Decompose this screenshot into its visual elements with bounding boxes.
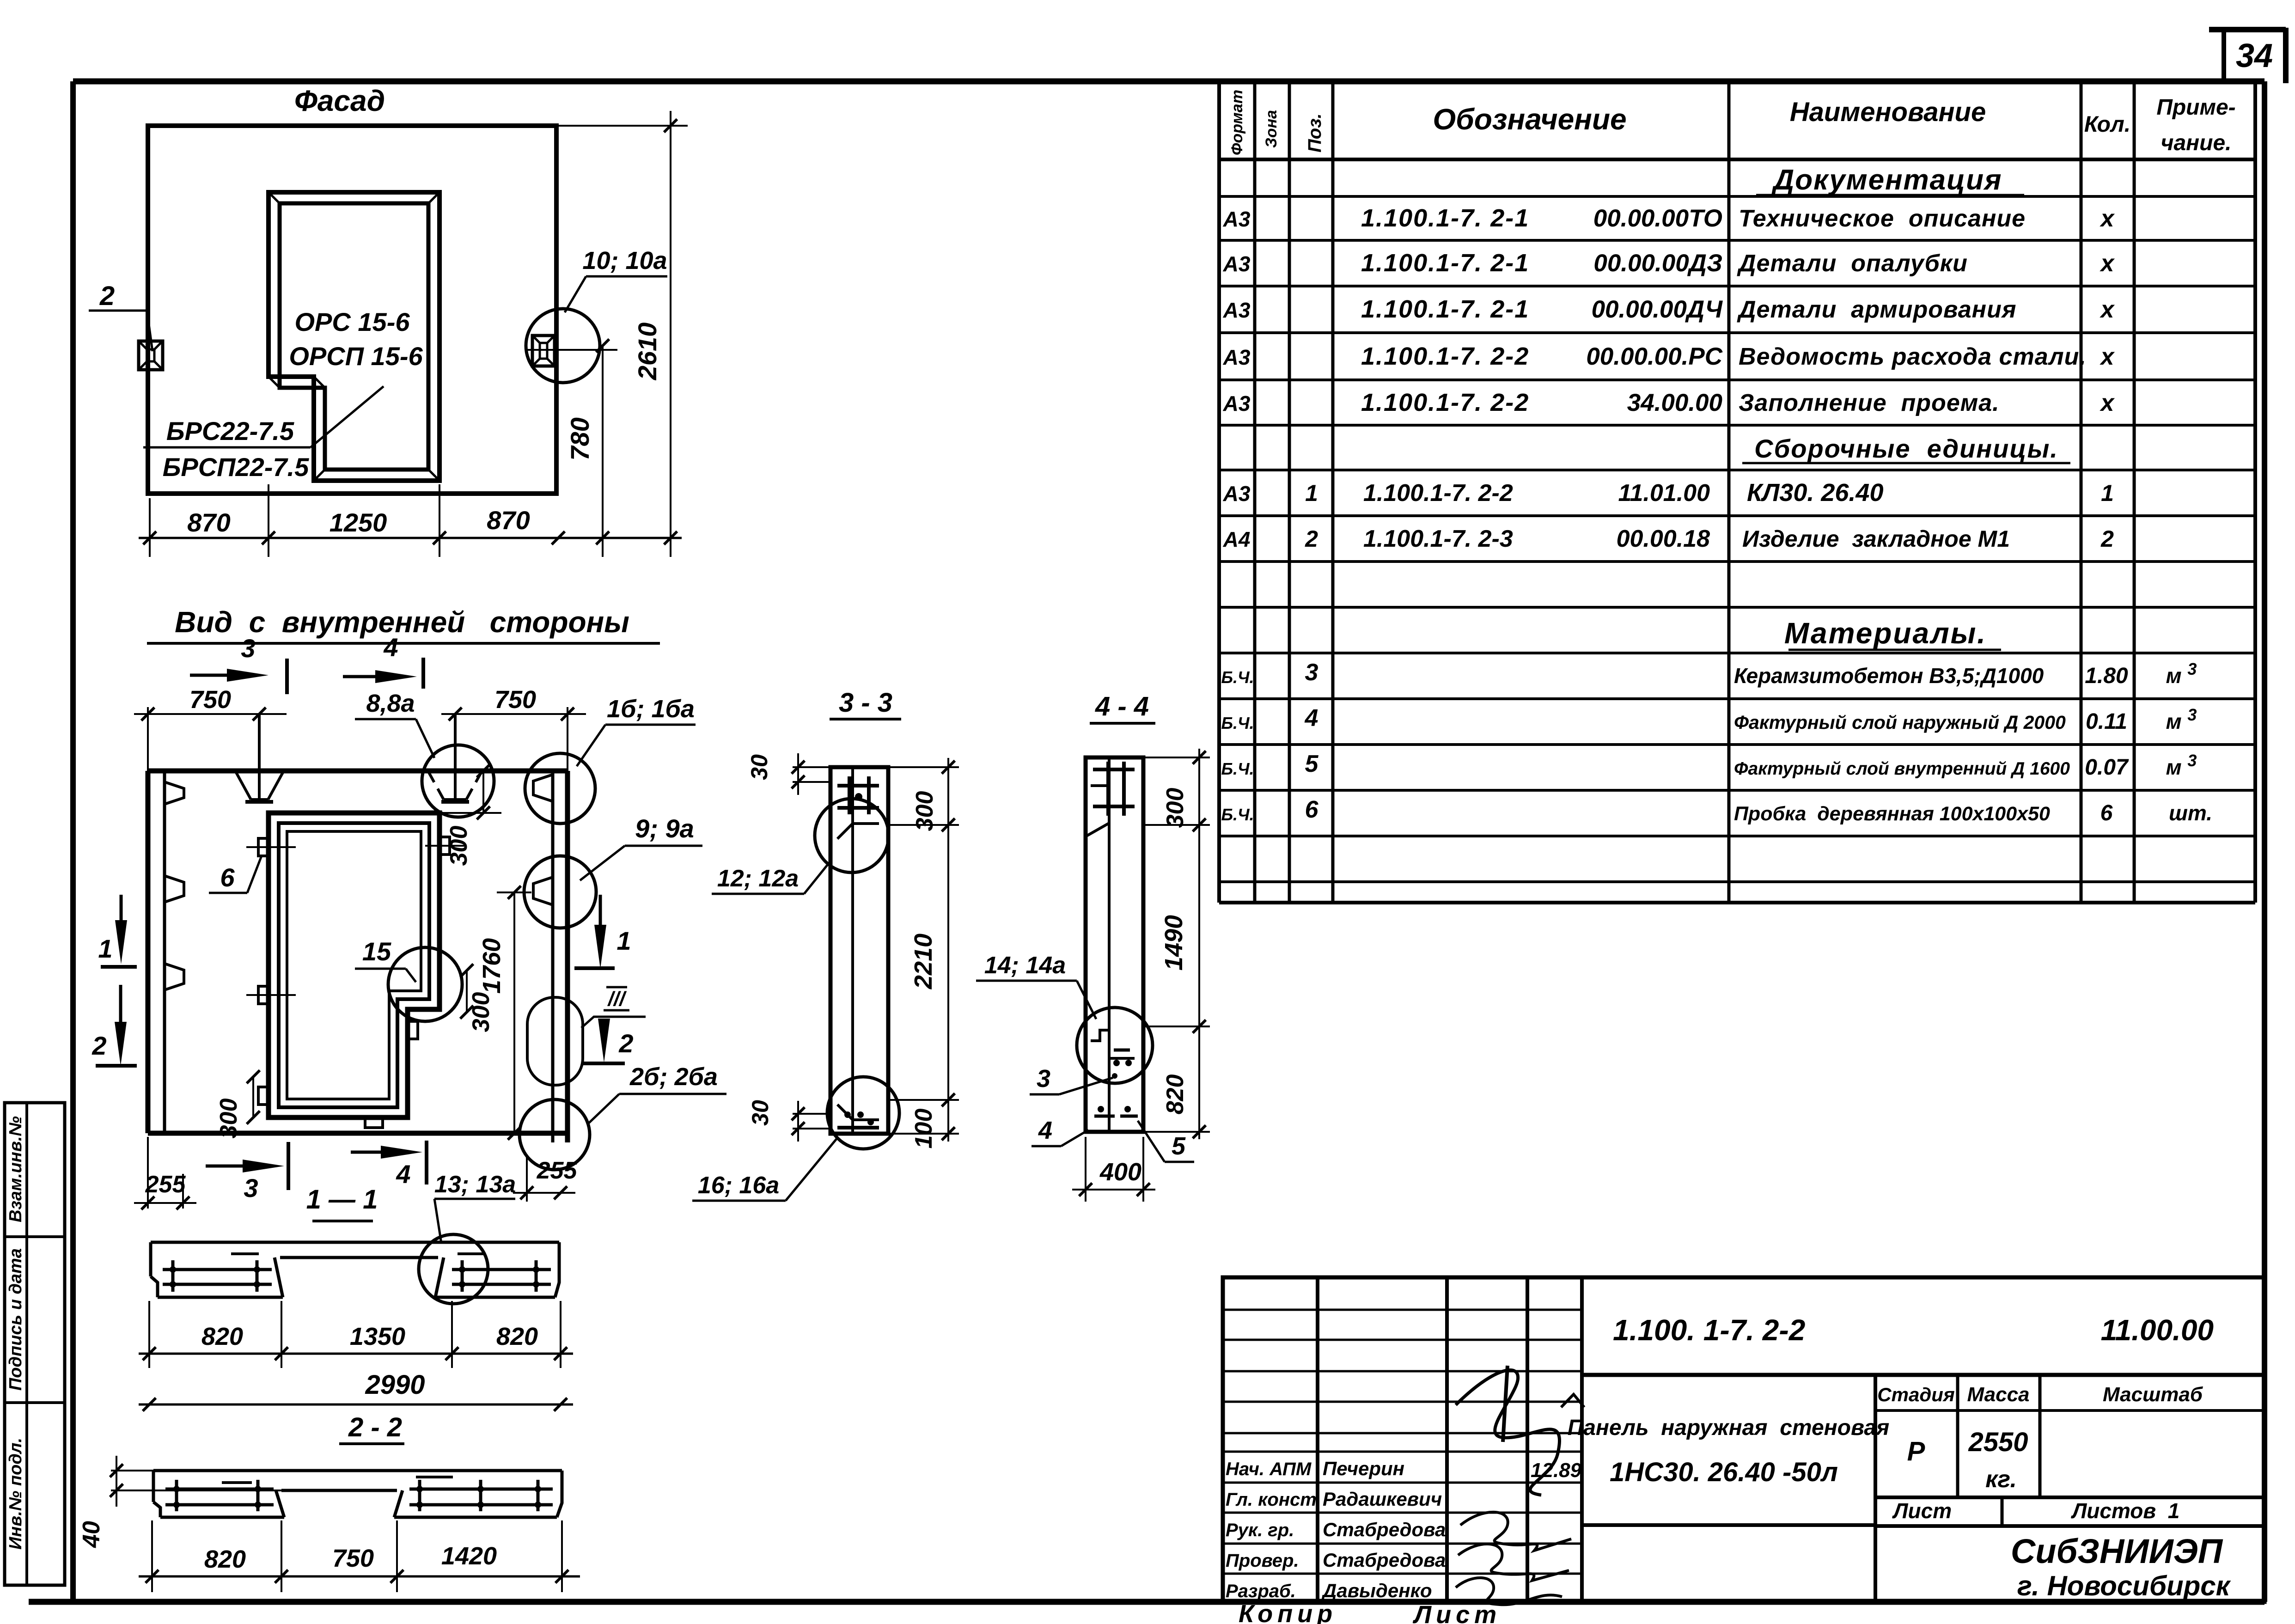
svg-text:3: 3 <box>244 1173 258 1203</box>
clamp inside 9 circle <box>533 877 553 905</box>
svg-text:1: 1 <box>616 926 631 955</box>
svg-text:Копир: Копир <box>1239 1600 1337 1624</box>
detail circle 9;9а <box>524 856 596 928</box>
svg-text:2: 2 <box>1305 526 1318 552</box>
svg-text:А3: А3 <box>1223 391 1251 415</box>
svg-text:1350: 1350 <box>350 1323 405 1350</box>
label 13;13а with leader <box>434 1171 516 1243</box>
svg-text:ОРСП 15-6: ОРСП 15-6 <box>289 342 423 371</box>
svg-text:5: 5 <box>1172 1132 1186 1160</box>
svg-text:11.01.00: 11.01.00 <box>1618 480 1710 507</box>
svg-text:30: 30 <box>747 1100 773 1126</box>
svg-text:1: 1 <box>1305 480 1318 506</box>
svg-text:1: 1 <box>2101 480 2114 506</box>
svg-text:Приме-: Приме- <box>2156 95 2235 120</box>
svg-text:780: 780 <box>565 417 594 460</box>
svg-text:Детали опалубки: Детали опалубки <box>1737 250 1968 277</box>
detail circle 10;10а <box>526 309 600 383</box>
svg-text:3: 3 <box>1305 659 1318 686</box>
svg-text:Материалы.: Материалы. <box>1784 617 1987 650</box>
label 14;14а with leader <box>976 952 1096 1019</box>
svg-text:2: 2 <box>2100 526 2114 552</box>
svg-text:Б.Ч.: Б.Ч. <box>1221 668 1254 687</box>
title block: organization <box>2011 1532 2231 1601</box>
svg-text:Заполнение проема.: Заполнение проема. <box>1739 390 2000 416</box>
label 1б;1ба with leader <box>577 695 696 766</box>
table row: Керамзитобетон В3,5;Д1000 <box>1221 659 2197 688</box>
svg-text:300: 300 <box>215 1099 242 1139</box>
section 3-3 bottom rebar (detail 16;16а) <box>837 1105 879 1128</box>
svg-text:1.100. 1-7. 2-2: 1.100. 1-7. 2-2 <box>1613 1313 1805 1347</box>
table section heading Документация <box>1756 164 2024 196</box>
svg-text:11.00.00: 11.00.00 <box>2101 1313 2214 1347</box>
svg-text:Фактурный слой внутренний Д 16: Фактурный слой внутренний Д 1600 <box>1734 759 2070 779</box>
svg-text:Подпись и дата: Подпись и дата <box>6 1248 25 1391</box>
svg-text:820: 820 <box>496 1323 538 1350</box>
svg-text:Пробка деревянная 100х100х50: Пробка деревянная 100х100х50 <box>1734 803 2050 825</box>
svg-text:4 - 4: 4 - 4 <box>1095 691 1149 721</box>
table section heading Сборочные единицы <box>1742 434 2070 463</box>
label 2б;2ба with leader <box>588 1063 726 1124</box>
detail circle 16;16а <box>827 1077 899 1149</box>
svg-text:х: х <box>2100 250 2115 277</box>
svg-text:750: 750 <box>494 686 536 714</box>
svg-text:870: 870 <box>487 506 530 535</box>
table row КЛ30.26.40 <box>1223 479 2114 507</box>
svg-text:СибЗНИИЭП: СибЗНИИЭП <box>2011 1532 2223 1570</box>
svg-text:Рук. гр.: Рук. гр. <box>1226 1520 1294 1540</box>
svg-text:34: 34 <box>2236 37 2273 74</box>
label 10;10а with leader <box>565 247 667 312</box>
section 4-4 profile <box>1086 757 1143 1132</box>
svg-text:2б; 2ба: 2б; 2ба <box>629 1063 718 1091</box>
window frame tab bottom <box>365 1117 383 1128</box>
section 4-4 dimension 400 <box>1072 1137 1155 1202</box>
svg-text:Ведомость расхода стали.: Ведомость расхода стали. <box>1739 343 2087 370</box>
label Ш (welded joint) <box>604 987 629 1010</box>
svg-text:2990: 2990 <box>365 1370 425 1400</box>
detail circle 14;14а <box>1077 1007 1153 1083</box>
svg-text:А4: А4 <box>1223 527 1251 551</box>
svg-text:Лист: Лист <box>1412 1601 1501 1624</box>
svg-text:х: х <box>2100 296 2115 323</box>
svg-text:2: 2 <box>92 1031 106 1060</box>
svg-text:///: /// <box>607 988 627 1010</box>
svg-text:Масса: Масса <box>1967 1383 2029 1406</box>
label 4 with leader <box>1032 1117 1088 1146</box>
svg-text:00.00.00.РС: 00.00.00.РС <box>1586 343 1722 370</box>
svg-text:Документация: Документация <box>1771 164 2002 196</box>
svg-text:Печерин: Печерин <box>1323 1458 1404 1479</box>
svg-text:Изделие закладное М1: Изделие закладное М1 <box>1742 526 2010 552</box>
section 3-3 profile <box>830 767 888 1134</box>
section mark 3 (top) <box>190 634 287 694</box>
svg-text:4: 4 <box>1305 705 1318 732</box>
svg-text:15: 15 <box>362 937 391 966</box>
svg-text:300: 300 <box>468 992 494 1032</box>
leader from stadium <box>581 1017 646 1028</box>
svg-text:750: 750 <box>189 686 231 714</box>
label 12;12а with leader <box>712 861 831 894</box>
section 4-4 dimension chain 300/1490/820 <box>1143 749 1210 1139</box>
svg-text:Давыденко: Давыденко <box>1321 1580 1432 1601</box>
specification table grid <box>1219 81 2255 903</box>
svg-text:Детали армирования: Детали армирования <box>1737 296 2016 323</box>
label 15 with leader <box>355 937 416 982</box>
svg-text:Кол.: Кол. <box>2084 112 2130 137</box>
section mark 1 (right) <box>574 895 631 969</box>
svg-text:Керамзитобетон В3,5;Д1000: Керамзитобетон В3,5;Д1000 <box>1734 664 2044 688</box>
svg-text:12; 12а: 12; 12а <box>717 865 799 892</box>
svg-text:5: 5 <box>1305 751 1319 777</box>
svg-text:13; 13а: 13; 13а <box>434 1171 516 1198</box>
svg-text:1: 1 <box>98 934 112 963</box>
interior dimension 750 left <box>134 686 287 771</box>
svg-text:820: 820 <box>201 1323 243 1350</box>
section 2-2 rebar left block <box>165 1480 274 1511</box>
svg-text:4: 4 <box>1038 1117 1052 1144</box>
table row: Пробка &#160;деревянная 100х100х50 <box>1221 796 2212 825</box>
svg-text:кг.: кг. <box>1985 1466 2017 1493</box>
svg-text:Гл. конст: Гл. конст <box>1226 1490 1317 1510</box>
detail circle 12;12а <box>815 799 889 873</box>
section 4-4 title <box>1090 691 1155 723</box>
table row: Фактурный слой наружный Д 2000 <box>1221 705 2197 734</box>
facade dimension 2610 (vertical) <box>556 111 688 557</box>
svg-text:1б; 1ба: 1б; 1ба <box>607 695 695 723</box>
svg-text:КЛ30. 26.40: КЛ30. 26.40 <box>1747 479 1884 507</box>
left edge clamp mark a <box>165 782 184 804</box>
svg-text:А3: А3 <box>1223 482 1251 506</box>
svg-text:1420: 1420 <box>441 1542 497 1570</box>
label 9;9а with leader <box>580 814 702 880</box>
interior window inner contour <box>287 831 421 1099</box>
svg-text:00.00.00ДЗ: 00.00.00ДЗ <box>1593 250 1722 277</box>
interior dimension 255 left <box>134 1137 196 1209</box>
svg-text:2: 2 <box>99 281 115 311</box>
svg-text:255: 255 <box>537 1157 578 1184</box>
svg-text:6: 6 <box>2100 801 2113 825</box>
stadium detail zone Ш <box>527 997 583 1085</box>
svg-text:шт.: шт. <box>2169 801 2212 825</box>
svg-text:Формат: Формат <box>1228 90 1246 155</box>
title block signature row Рук. гр. <box>1226 1519 1446 1540</box>
svg-text:3: 3 <box>241 634 255 663</box>
signatures squiggles <box>1456 1366 1584 1605</box>
svg-text:Листов 1: Листов 1 <box>2071 1499 2180 1523</box>
title block signature row Нач. АПМ <box>1226 1458 1404 1479</box>
svg-text:40: 40 <box>78 1521 105 1548</box>
facade embedded item 10 (right) <box>532 336 555 366</box>
svg-text:1.100.1-7. 2-2: 1.100.1-7. 2-2 <box>1361 342 1529 370</box>
svg-text:300: 300 <box>1162 788 1189 828</box>
svg-text:Взам.инв.№: Взам.инв.№ <box>6 1116 25 1222</box>
title block signature row Гл. конст <box>1226 1488 1442 1510</box>
left edge clamp mark b <box>165 876 184 902</box>
svg-text:1.100.1-7. 2-1: 1.100.1-7. 2-1 <box>1361 249 1529 277</box>
svg-text:Б.Ч.: Б.Ч. <box>1221 805 1254 824</box>
svg-text:Обозначение: Обозначение <box>1433 103 1626 136</box>
section 2-2 title <box>339 1412 404 1444</box>
svg-text:1.100.1-7. 2-1: 1.100.1-7. 2-1 <box>1361 295 1529 323</box>
table row: Ведомость расхода стали. <box>1223 342 2115 370</box>
interior window middle contour <box>279 823 429 1107</box>
svg-text:А3: А3 <box>1223 345 1251 369</box>
title block grid <box>1223 1277 2264 1602</box>
section 3-3 dimension chain 300/2210/100 <box>888 758 959 1148</box>
section 3-3 top rebar (detail 12;12а) <box>837 776 879 839</box>
detail circle 13;13а <box>419 1234 488 1304</box>
section mark 4 (top) <box>343 633 423 689</box>
svg-text:100: 100 <box>910 1109 937 1149</box>
svg-text:Наименование: Наименование <box>1790 97 1986 127</box>
table section heading Материалы <box>1784 617 2001 650</box>
interior dimension 300 bottom left <box>215 1070 260 1139</box>
table row: Фактурный слой внутренний Д 1600 <box>1221 751 2197 780</box>
left edge clamp mark c <box>165 964 184 990</box>
svg-text:Фасад: Фасад <box>294 84 385 117</box>
window frame tab step edge <box>408 1021 418 1039</box>
label 6 with leader <box>209 856 262 893</box>
svg-text:Инв.№ подл.: Инв.№ подл. <box>6 1438 25 1550</box>
svg-text:2: 2 <box>618 1029 633 1058</box>
svg-text:Р: Р <box>1907 1436 1925 1466</box>
svg-text:30: 30 <box>746 754 772 780</box>
detail circle 1б;1ба <box>525 753 595 824</box>
svg-text:чание.: чание. <box>2161 131 2231 155</box>
facade window corner chamfer ticks <box>269 192 439 481</box>
svg-text:А3: А3 <box>1223 298 1251 322</box>
section 2-2 dimensions 820/750/1420 <box>139 1520 580 1592</box>
interior dimension 750 right <box>441 686 586 771</box>
svg-text:Техническое описание: Техническое описание <box>1739 205 2026 232</box>
title block signature row Провер. <box>1226 1549 1446 1571</box>
table row: Детали &#160;опалубки <box>1223 249 2115 277</box>
svg-text:Нач. АПМ: Нач. АПМ <box>1226 1459 1312 1479</box>
svg-text:БРС22-7.5: БРС22-7.5 <box>166 416 294 446</box>
section mark 2 (left) <box>92 985 137 1066</box>
svg-text:Б.Ч.: Б.Ч. <box>1221 759 1254 778</box>
section mark 2 (right) <box>581 1019 634 1063</box>
facade window opening inner contour <box>280 203 428 470</box>
svg-text:870: 870 <box>187 508 230 537</box>
svg-text:34.00.00: 34.00.00 <box>1627 389 1722 416</box>
svg-text:1НС30. 26.40 -50л: 1НС30. 26.40 -50л <box>1610 1457 1838 1487</box>
svg-text:4: 4 <box>396 1160 410 1189</box>
label 2 with leader <box>89 281 153 351</box>
interior view title <box>147 605 660 643</box>
svg-text:Радашкевич: Радашкевич <box>1323 1488 1442 1510</box>
svg-text:г. Новосибирск: г. Новосибирск <box>2017 1570 2231 1601</box>
label 3 with leader <box>1030 1065 1117 1094</box>
facade window opening (L-shaped, outer contour) <box>269 192 439 481</box>
facade panel outline <box>148 126 556 494</box>
table row: Заполнение &#160;проема. <box>1223 389 2115 416</box>
svg-text:Провер.: Провер. <box>1226 1551 1299 1571</box>
interior window opening (L-shaped) outer contour <box>269 813 439 1117</box>
svg-text:Зона: Зона <box>1263 110 1280 148</box>
svg-text:1.80: 1.80 <box>2085 664 2128 688</box>
section mark 3 (bottom) <box>206 1142 288 1203</box>
svg-text:8,8а: 8,8а <box>366 690 415 717</box>
svg-text:2550: 2550 <box>1968 1427 2028 1457</box>
interior dimension 1760 <box>478 886 531 1140</box>
interior dimension 300 middle <box>460 964 494 1032</box>
table row: Детали &#160;армирования <box>1223 295 2115 323</box>
top edge notch 1 with lifting anchor <box>235 714 284 803</box>
title block: panel name <box>1568 1416 1890 1487</box>
svg-text:Разраб.: Разраб. <box>1226 1581 1296 1601</box>
svg-text:Сборочные единицы.: Сборочные единицы. <box>1754 434 2058 463</box>
svg-text:6: 6 <box>1305 796 1319 823</box>
svg-text:10; 10а: 10; 10а <box>582 247 667 275</box>
svg-text:750: 750 <box>332 1545 374 1572</box>
section 2-2 profile <box>153 1471 562 1517</box>
svg-text:Стабредова: Стабредова <box>1323 1549 1446 1571</box>
detail circle 8,8а <box>422 745 494 817</box>
centerline through item 10 <box>527 349 617 351</box>
interior dimension 300 top right <box>439 764 501 866</box>
svg-text:1490: 1490 <box>1160 915 1188 971</box>
svg-text:16; 16а: 16; 16а <box>698 1172 779 1199</box>
window frame tab left bottom <box>258 1087 269 1105</box>
svg-text:14; 14а: 14; 14а <box>984 952 1066 979</box>
interior panel outline <box>148 771 568 1142</box>
svg-text:255: 255 <box>145 1171 186 1198</box>
svg-text:2610: 2610 <box>633 323 662 381</box>
svg-text:3 - 3: 3 - 3 <box>839 688 892 718</box>
label 5 with leader <box>1138 1121 1194 1162</box>
section 1-1 rebar left block <box>163 1254 272 1292</box>
detail circle 2б;2ба <box>519 1099 590 1170</box>
svg-text:2210: 2210 <box>909 934 937 989</box>
svg-text:х: х <box>2100 390 2115 416</box>
svg-text:1 — 1: 1 — 1 <box>306 1184 378 1215</box>
svg-text:Стабредова: Стабредова <box>1323 1519 1446 1540</box>
clamp inside 1б circle <box>533 775 553 801</box>
svg-text:А3: А3 <box>1223 252 1251 276</box>
svg-text:х: х <box>2100 205 2115 232</box>
svg-text:Стадия: Стадия <box>1877 1384 1954 1405</box>
interior dimension 255 right <box>513 1155 577 1202</box>
svg-text:Фактурный слой наружный Д 2000: Фактурный слой наружный Д 2000 <box>1734 712 2066 733</box>
svg-text:00.00.18: 00.00.18 <box>1617 525 1710 552</box>
svg-text:0.11: 0.11 <box>2086 709 2127 734</box>
svg-text:400: 400 <box>1099 1158 1141 1186</box>
svg-text:Лист: Лист <box>1892 1499 1952 1523</box>
title block: стадия масса масштаб <box>1877 1383 2203 1493</box>
svg-text:3: 3 <box>1037 1065 1050 1093</box>
section 1-1 title <box>306 1184 378 1221</box>
specification table headers <box>1228 90 2236 155</box>
window frame tab right top <box>425 837 467 855</box>
section 3-3 dimension 30 bottom <box>747 1100 832 1142</box>
svg-text:00.00.00ТО: 00.00.00ТО <box>1593 205 1722 232</box>
detail circle 15 <box>388 947 462 1021</box>
table row Изделие закладное М1 <box>1223 525 2114 552</box>
section 1-1 dimensions 820/1350/820 <box>139 1301 573 1368</box>
svg-text:ОРС 15-6: ОРС 15-6 <box>295 307 410 336</box>
svg-text:х: х <box>2100 343 2115 370</box>
window frame tab left middle <box>246 986 296 1004</box>
svg-text:Масштаб: Масштаб <box>2103 1383 2203 1406</box>
label underline and leader <box>143 386 384 447</box>
svg-text:Б.Ч.: Б.Ч. <box>1221 714 1254 733</box>
svg-text:300: 300 <box>446 826 472 866</box>
table row: Техническое &#160;описание <box>1223 204 2115 232</box>
svg-text:1.100.1-7. 2-3: 1.100.1-7. 2-3 <box>1363 525 1513 552</box>
section 3-3 title <box>830 688 901 719</box>
sheet number box 34 <box>2209 28 2286 83</box>
svg-text:820: 820 <box>204 1545 246 1573</box>
title block: лист / листов <box>1892 1499 2179 1523</box>
svg-text:4: 4 <box>383 633 398 662</box>
section 1-1 dimension 2990 <box>139 1370 573 1411</box>
label 16;16а with leader <box>692 1138 837 1201</box>
svg-text:00.00.00ДЧ: 00.00.00ДЧ <box>1592 296 1723 323</box>
svg-text:А3: А3 <box>1223 207 1251 231</box>
svg-text:1.100.1-7. 2-1: 1.100.1-7. 2-1 <box>1361 204 1529 232</box>
svg-text:9; 9а: 9; 9а <box>635 814 694 843</box>
svg-text:820: 820 <box>1162 1075 1189 1115</box>
section 2-2 rebar right block <box>409 1477 553 1511</box>
svg-text:1.100.1-7. 2-2: 1.100.1-7. 2-2 <box>1363 480 1513 507</box>
left margin stamp strip <box>5 1103 65 1585</box>
svg-text:2 - 2: 2 - 2 <box>348 1412 402 1442</box>
section 4-4 top rebar <box>1091 762 1135 816</box>
svg-text:Поз.: Поз. <box>1305 113 1325 153</box>
svg-text:0.07: 0.07 <box>2085 755 2129 780</box>
section 3-3 dimension 30 top <box>746 753 832 795</box>
title block signature row Разраб. <box>1226 1580 1432 1601</box>
svg-text:300: 300 <box>911 791 938 831</box>
facade bottom dimension line 870/1250/870 <box>139 484 682 557</box>
section 4-4 middle step (detail 14;14а) <box>1091 1030 1135 1066</box>
section 1-1 profile <box>151 1242 559 1297</box>
window frame tab left top <box>246 838 296 856</box>
top edge notch 2 with lifting anchor (detail 8,8а) <box>428 714 482 803</box>
svg-text:6: 6 <box>220 863 235 892</box>
svg-text:1760: 1760 <box>478 938 506 994</box>
svg-text:1250: 1250 <box>330 508 387 537</box>
section mark 4 (bottom) <box>351 1141 427 1189</box>
label 8,8а with leader <box>355 690 434 758</box>
svg-text:БРСП22-7.5: БРСП22-7.5 <box>163 452 309 482</box>
section 2-2 dimension 40 <box>78 1456 283 1548</box>
section 4-4 bottom rebar dots <box>1094 1106 1138 1116</box>
section mark 1 (left) <box>98 895 137 967</box>
facade dimension 780 (vertical) <box>565 339 609 557</box>
svg-text:Панель наружная стеновая: Панель наружная стеновая <box>1568 1416 1890 1440</box>
section 1-1 rebar right block <box>452 1254 551 1292</box>
svg-text:1.100.1-7. 2-2: 1.100.1-7. 2-2 <box>1361 389 1529 416</box>
facade embedded item 2 (left edge) <box>139 341 163 370</box>
